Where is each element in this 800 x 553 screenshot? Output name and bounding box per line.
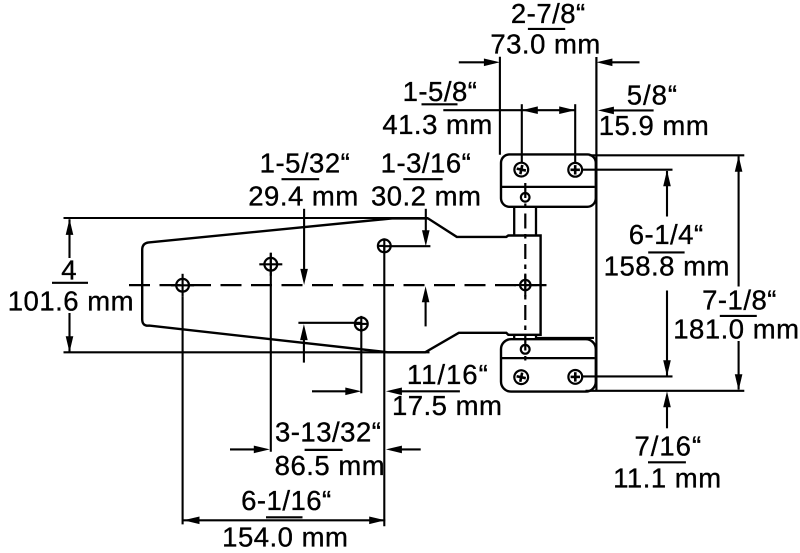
label 41.3 mm [382,109,492,140]
dimension arrows 29.4mm [300,209,308,363]
fraction bar 7/16 [648,461,686,463]
dimension arrows 86.5mm [230,446,421,454]
svg-text:1-3/16“: 1-3/16“ [381,148,472,179]
dimension line 41.3mm [443,106,575,114]
label 158.8 mm [604,250,730,281]
fraction bar 1-3/16 [403,178,442,180]
strap hole A (left, on centerline) [171,274,194,297]
svg-text:158.8 mm: 158.8 mm [604,250,730,281]
label 6-1/4 inch [629,219,704,250]
label 3-13/32 inch [275,417,381,448]
dimension arrows 17.5mm [312,388,460,396]
dimension line 4in vertical [66,219,74,352]
svg-text:6-1/16“: 6-1/16“ [241,485,332,516]
svg-text:7/16“: 7/16“ [634,431,702,462]
label 1-5/32 inch [260,148,351,179]
svg-text:29.4 mm: 29.4 mm [248,180,358,211]
door frame edge line [595,57,597,391]
label 17.5 mm [392,390,502,421]
pin hole top flange [521,193,530,202]
fraction bar 1-5/8 [422,103,458,105]
label 154.0 mm [222,522,348,553]
dimension line 181mm [735,156,743,391]
extension line hole C right [384,245,430,247]
dimension line 154mm [184,517,386,525]
svg-text:2-7/8“: 2-7/8“ [511,0,586,29]
extension line bottom screws right [582,375,672,377]
label 30.2 mm [371,180,481,211]
svg-text:6-1/4“: 6-1/4“ [629,219,704,250]
fraction bar 2-7/8 [528,28,565,30]
fraction bar 7-1/8 [720,315,757,317]
label 101.6 mm [8,285,134,316]
extension line top screws right [582,169,672,171]
extension line hole B down [270,253,272,452]
dimension arrows 73mm [459,59,640,67]
fraction bar 1-5/32 [282,178,320,180]
svg-text:7-1/8“: 7-1/8“ [702,284,777,315]
fraction bar 3-13/32 [305,449,343,451]
extension line 73mm left [499,57,501,155]
svg-text:41.3 mm: 41.3 mm [382,109,492,140]
label 86.5 mm [275,450,385,481]
label 29.4 mm [248,180,358,211]
svg-text:17.5 mm: 17.5 mm [392,390,502,421]
label 7-1/8 inch [702,284,777,315]
label 11/16 inch [407,359,489,390]
label 73.0 mm [490,28,600,59]
extension line top of strap [64,217,429,219]
svg-text:30.2 mm: 30.2 mm [371,180,481,211]
screw bottom-left [513,369,529,385]
extension line hole A down [182,297,184,525]
hinge strap outline [142,218,540,352]
svg-text:5/8“: 5/8“ [627,80,678,111]
svg-text:86.5 mm: 86.5 mm [275,450,385,481]
label 1-3/16 inch [381,148,472,179]
svg-text:4: 4 [61,255,77,286]
fraction bar 4in [52,282,88,284]
label 5/8 inch [627,80,678,111]
svg-text:1-5/32“: 1-5/32“ [260,148,351,179]
strap hole B [259,253,282,276]
label 15.9 mm [599,110,709,141]
strap hole D (lower right) [355,316,368,332]
dimension arrow 7/16in [663,391,671,428]
label 7/16 inch [634,431,702,462]
svg-text:101.6 mm: 101.6 mm [8,285,134,316]
svg-text:11.1 mm: 11.1 mm [613,462,721,493]
svg-text:3-13/32“: 3-13/32“ [275,417,381,448]
extension line screw left up [521,104,523,162]
label 6-1/16 inch [241,485,332,516]
fraction bar 6-1/16 [266,516,303,518]
label 1-5/8 inch [403,76,478,107]
strap hole C (top right) [377,238,390,253]
extension line hole D left [298,322,361,324]
dimension line 158.8mm [663,170,671,376]
svg-text:181.0 mm: 181.0 mm [673,313,799,344]
dimension arrow 5/8in [598,107,654,115]
extension line hole C down [383,246,385,526]
svg-text:73.0 mm: 73.0 mm [490,28,600,59]
hinge pin lower segment [514,335,594,339]
screw bottom-right [568,370,582,384]
svg-text:11/16“: 11/16“ [407,359,489,390]
screw top-left [513,161,529,177]
screw top-right [568,163,582,177]
svg-text:15.9 mm: 15.9 mm [599,110,709,141]
extension line hole D down [360,324,362,393]
label 4 inch [61,255,77,286]
pivot point crosshair [514,274,537,297]
extension line flange bottom right [586,390,745,392]
extension line screw right up [574,104,576,163]
extension line bottom of strap [64,351,430,353]
pin hole bottom flange [521,345,530,354]
horizontal centerline [129,284,553,286]
top mounting flange [501,154,596,206]
bottom mounting flange [501,339,596,391]
dimension arrows 30.2mm [422,209,430,327]
label 2-7/8 inch [511,0,586,29]
extension line flange top right [590,154,745,156]
label 181.0 mm [673,313,799,344]
hinge pin upper segment [514,207,536,236]
svg-text:1-5/8“: 1-5/8“ [403,76,478,107]
svg-text:154.0 mm: 154.0 mm [222,522,348,553]
pin vertical centerline [524,183,526,364]
fraction bar 6-1/4 [648,251,684,253]
label 11.1 mm [613,462,721,493]
